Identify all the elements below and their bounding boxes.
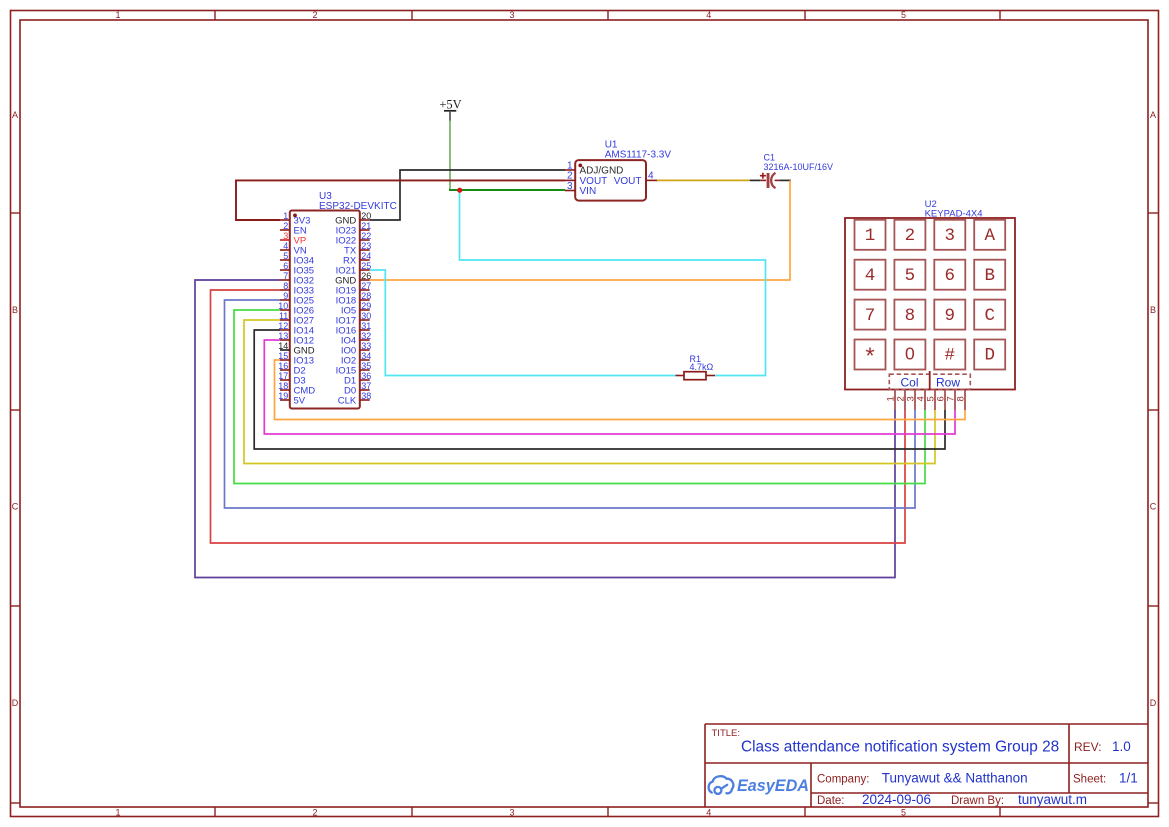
svg-text:16: 16 — [278, 361, 288, 371]
U3 pin 31 IO16 — [336, 321, 372, 337]
svg-text:1/1: 1/1 — [1119, 771, 1138, 786]
svg-text:Row: Row — [936, 376, 960, 390]
U3 pin 23 TX — [344, 241, 371, 257]
svg-text:4.7kΩ: 4.7kΩ — [690, 362, 714, 372]
svg-text:27: 27 — [361, 281, 371, 291]
U3 pin 19 5V — [278, 391, 305, 407]
U3 pin 37 D0 — [344, 381, 371, 397]
svg-text:18: 18 — [278, 381, 288, 391]
U3 pin 12 IO14 — [278, 321, 314, 337]
svg-text:2: 2 — [312, 10, 317, 20]
svg-text:A: A — [984, 226, 995, 246]
keypad Col/Row dashed group box — [889, 371, 970, 390]
svg-text:2: 2 — [283, 221, 288, 231]
keypad key # — [934, 340, 965, 370]
keypad pin 7 — [945, 390, 956, 411]
svg-text:1.0: 1.0 — [1112, 739, 1131, 754]
U3 pin 6 IO35 — [280, 261, 314, 277]
wire VOUT net (gold) from U1 pin 4 to C1 left lead — [657, 179, 750, 181]
capacitor C1 3216A-10UF/16V (polarized) — [760, 153, 833, 189]
keypad pin 4 — [915, 390, 926, 411]
U3 pin 28 IO18 — [336, 291, 372, 307]
svg-text:23: 23 — [361, 241, 371, 251]
keypad pin 8 — [955, 390, 966, 411]
keypad key A — [974, 220, 1005, 250]
U3 pin 26 GND — [335, 271, 371, 287]
microcontroller U3 ESP32-DEVKITC — [290, 191, 397, 409]
wire (orange) U3 IO13 pin 15 to keypad pin 8 — [275, 360, 966, 420]
svg-text:4: 4 — [706, 10, 711, 20]
keypad pin 6 — [935, 390, 946, 411]
svg-text:3216A-10UF/16V: 3216A-10UF/16V — [764, 162, 834, 172]
U3 pin 1 3V3 — [280, 211, 310, 227]
wire +5V net (dark green) to U1 VIN — [449, 189, 565, 191]
U3 pin 4 VN — [280, 241, 307, 257]
svg-text:EasyEDA: EasyEDA — [737, 777, 809, 795]
U3 pin 24 RX — [343, 251, 371, 267]
U3 pin 17 D3 — [278, 371, 305, 387]
title block — [705, 724, 1148, 807]
U3 pin 7 IO32 — [280, 271, 314, 287]
svg-text:C: C — [12, 502, 19, 512]
svg-text:1: 1 — [283, 211, 288, 221]
svg-text:8: 8 — [955, 396, 966, 401]
keypad pin 5 — [925, 390, 936, 411]
svg-text:5: 5 — [901, 10, 906, 20]
svg-text:36: 36 — [361, 371, 371, 381]
U3 pin 33 IO0 — [341, 341, 371, 357]
svg-text:5: 5 — [905, 266, 916, 286]
keypad key 9 — [934, 300, 965, 330]
wire (black) C1 left stub — [750, 179, 761, 181]
voltage regulator U1 AMS1117-3.3V — [565, 140, 671, 201]
svg-text:4: 4 — [706, 808, 711, 818]
svg-text:3: 3 — [945, 226, 956, 246]
svg-text:3: 3 — [283, 231, 288, 241]
svg-text:Drawn By:: Drawn By: — [951, 795, 1004, 807]
svg-text:29: 29 — [361, 301, 371, 311]
svg-text:4: 4 — [283, 241, 288, 251]
svg-text:33: 33 — [361, 341, 371, 351]
svg-text:5V: 5V — [294, 396, 306, 407]
svg-text:Tunyawut && Natthanon: Tunyawut && Natthanon — [882, 771, 1028, 786]
svg-text:CLK: CLK — [338, 396, 357, 407]
svg-text:Col: Col — [900, 376, 918, 390]
svg-text:B: B — [12, 305, 18, 315]
keypad pin 2 — [895, 390, 906, 411]
wire +5V net (light green) vertical from power symbol — [449, 121, 451, 191]
U3 pin 20 GND — [335, 211, 371, 227]
svg-text:3: 3 — [509, 808, 514, 818]
svg-text:24: 24 — [361, 251, 371, 261]
U3 pin 13 IO12 — [278, 331, 314, 347]
U3 pin 9 IO25 — [280, 291, 314, 307]
svg-text:12: 12 — [278, 321, 288, 331]
svg-text:C: C — [984, 306, 995, 326]
svg-text:11: 11 — [279, 311, 288, 321]
keypad key 4 — [855, 260, 886, 290]
keypad key 8 — [894, 300, 925, 330]
svg-text:15: 15 — [278, 351, 288, 361]
svg-text:REV:: REV: — [1074, 740, 1102, 754]
svg-text:0: 0 — [905, 344, 915, 364]
svg-text:4: 4 — [865, 266, 876, 286]
svg-text:#: # — [945, 346, 956, 366]
keypad key C — [974, 300, 1005, 330]
svg-text:21: 21 — [361, 221, 371, 231]
svg-text:1: 1 — [115, 10, 120, 20]
svg-text:A: A — [12, 110, 18, 120]
svg-text:6: 6 — [283, 261, 288, 271]
EasyEDA logo — [709, 776, 809, 795]
keypad key 0 — [894, 340, 925, 370]
svg-text:1: 1 — [865, 226, 876, 246]
svg-text:VOUT: VOUT — [614, 176, 642, 187]
svg-text:2024-09-06: 2024-09-06 — [862, 792, 931, 807]
svg-text:28: 28 — [361, 291, 371, 301]
svg-text:20: 20 — [361, 211, 371, 221]
svg-text:Date:: Date: — [817, 795, 845, 807]
wire (cyan) from +5V junction down to R1 right lead — [460, 190, 766, 376]
wire (orange) from C1 right down and left to U3 pin 26 GND — [370, 180, 790, 280]
wire (red) U3 IO33 pin 8 to keypad pin 2 — [211, 290, 906, 543]
wire (slate blue) U3 IO25 pin 9 to keypad pin 3 — [225, 300, 916, 508]
U3 pin 36 D1 — [344, 371, 371, 387]
keypad key 5 — [894, 260, 925, 290]
keypad key 6 — [934, 260, 965, 290]
svg-text:32: 32 — [361, 331, 371, 341]
svg-text:35: 35 — [361, 361, 371, 371]
U3 pin 32 IO4 — [341, 331, 371, 347]
svg-text:38: 38 — [361, 391, 371, 401]
U3 pin 5 IO34 — [280, 251, 314, 267]
svg-text:2: 2 — [905, 226, 916, 246]
U3 pin 22 IO22 — [336, 231, 372, 247]
svg-text:25: 25 — [361, 261, 371, 271]
svg-text:19: 19 — [278, 391, 288, 401]
keypad pin 3 — [905, 390, 916, 411]
svg-text:26: 26 — [361, 271, 371, 281]
wire 3V3 net (dark red) from U1 VOUT pin2 to U3 pin 1 3V3 — [236, 180, 565, 220]
U3 pin 21 IO23 — [336, 221, 372, 237]
svg-text:37: 37 — [361, 381, 371, 391]
U3 pin 11 IO27 — [279, 311, 314, 327]
keypad U2 KEYPAD-4X4 — [845, 199, 1015, 390]
svg-text:B: B — [984, 266, 995, 286]
junction +5V/VIN node — [457, 188, 462, 193]
keypad key D — [974, 340, 1005, 370]
svg-text:7: 7 — [865, 306, 876, 326]
wire (black) C1 right stub — [779, 179, 791, 181]
U3 pin 30 IO17 — [336, 311, 372, 327]
svg-text:tunyawut.m: tunyawut.m — [1018, 792, 1087, 807]
keypad key B — [974, 260, 1005, 290]
svg-text:D: D — [984, 346, 995, 366]
keypad key 7 — [855, 300, 886, 330]
svg-text:31: 31 — [361, 321, 371, 331]
svg-text:Class attendance notification: Class attendance notification system Gro… — [741, 739, 1059, 756]
U3 pin 10 IO26 — [278, 301, 314, 317]
svg-text:1: 1 — [115, 808, 120, 818]
svg-text:10: 10 — [278, 301, 288, 311]
svg-text:13: 13 — [278, 331, 288, 341]
svg-text:5: 5 — [901, 808, 906, 818]
U3 pin 18 CMD — [278, 381, 315, 397]
U3 pin 25 IO21 — [336, 261, 372, 277]
svg-text:9: 9 — [945, 306, 956, 326]
svg-text:3: 3 — [509, 10, 514, 20]
svg-text:TITLE:: TITLE: — [712, 728, 741, 739]
U3 pin 8 IO33 — [280, 281, 314, 297]
svg-text:5: 5 — [283, 251, 288, 261]
svg-text:1: 1 — [567, 160, 573, 171]
svg-text:Company:: Company: — [817, 774, 869, 786]
svg-text:*: * — [863, 346, 877, 372]
U3 pin 14 GND — [278, 341, 314, 357]
U3 pin 35 IO15 — [336, 361, 372, 377]
keypad key 3 — [934, 220, 965, 250]
svg-text:+5V: +5V — [439, 98, 461, 112]
svg-text:6: 6 — [945, 266, 956, 286]
svg-text:D: D — [1150, 698, 1157, 708]
svg-text:34: 34 — [361, 351, 371, 361]
keypad key 2 — [894, 220, 925, 250]
wire (black) U3 IO14 pin 12 to keypad pin 6 — [254, 330, 945, 449]
svg-text:Sheet:: Sheet: — [1073, 774, 1106, 786]
svg-text:3: 3 — [567, 181, 573, 192]
keypad key 1 — [855, 220, 886, 250]
keypad pin 1 — [885, 390, 896, 411]
wire (green) U3 IO26 pin 10 to keypad pin 4 — [234, 310, 925, 484]
svg-text:VIN: VIN — [580, 186, 597, 197]
svg-text:14: 14 — [278, 341, 288, 351]
U3 pin 27 IO19 — [336, 281, 372, 297]
wire (magenta) U3 IO12 pin 13 to keypad pin 7 — [264, 340, 955, 434]
svg-text:9: 9 — [283, 291, 288, 301]
svg-text:8: 8 — [905, 306, 916, 326]
svg-text:2: 2 — [312, 808, 317, 818]
U3 pin 34 IO2 — [341, 351, 371, 367]
U3 pin 3 VP — [280, 231, 306, 247]
svg-text:22: 22 — [361, 231, 371, 241]
svg-text:8: 8 — [283, 281, 288, 291]
svg-text:C1: C1 — [764, 153, 776, 163]
svg-text:30: 30 — [361, 311, 371, 321]
wire (yellow) U3 IO27 pin 11 to keypad pin 5 — [244, 320, 935, 464]
U3 pin 38 CLK — [338, 391, 372, 407]
svg-text:D: D — [12, 698, 19, 708]
+5V power symbol — [439, 98, 461, 121]
svg-text:C: C — [1150, 502, 1157, 512]
U3 pin 29 IO5 — [341, 301, 371, 317]
U3 pin 16 D2 — [278, 361, 305, 377]
U3 pin 2 EN — [280, 221, 307, 237]
wire (cyan) from U3 pin 25 IO21 to R1 left lead — [370, 270, 676, 376]
svg-text:A: A — [1150, 110, 1156, 120]
wire GND net (black) from U1 ADJ/GND to U3 pin 20 — [370, 170, 565, 220]
svg-text:4: 4 — [648, 171, 654, 182]
resistor R1 4.7kOhm — [676, 354, 716, 380]
wire (purple) U3 IO32 pin 7 to keypad pin 1 — [195, 280, 895, 578]
svg-text:7: 7 — [283, 271, 288, 281]
svg-text:17: 17 — [278, 371, 288, 381]
svg-text:AMS1117-3.3V: AMS1117-3.3V — [605, 150, 672, 161]
U3 pin 15 IO13 — [278, 351, 314, 367]
keypad key * — [855, 340, 886, 372]
svg-text:B: B — [1150, 305, 1156, 315]
